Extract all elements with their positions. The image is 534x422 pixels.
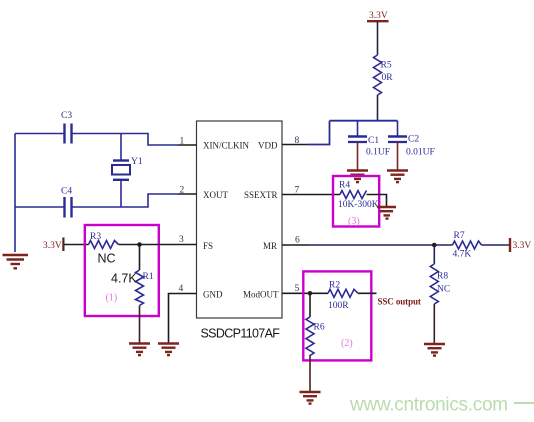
svg-text:C3: C3 (61, 111, 72, 121)
svg-text:6: 6 (295, 236, 300, 246)
ground C2 (387, 171, 408, 183)
wire : GND pin 4 (169, 294, 197, 344)
svg-text:FS: FS (203, 241, 213, 251)
svg-text:SSC output: SSC output (378, 297, 421, 307)
svg-text:3.3V: 3.3V (43, 241, 62, 251)
svg-text:R4: R4 (339, 181, 350, 191)
wire : SSEXTR pin 7 to R4 (282, 194, 340, 196)
svg-text:R7: R7 (454, 231, 465, 241)
ground R8 (424, 344, 445, 356)
svg-text:MR: MR (263, 241, 277, 251)
svg-text:XIN/CLKIN: XIN/CLKIN (203, 141, 249, 151)
node junction ModOUT/R6 (308, 291, 313, 296)
resistor R6 (306, 293, 325, 391)
svg-text:Y1: Y1 (131, 157, 143, 167)
svg-text:0.1UF: 0.1UF (366, 148, 390, 158)
wire : left vertical of crystal loop (14, 134, 16, 253)
svg-text:5: 5 (295, 284, 300, 294)
svg-text:0R: 0R (382, 73, 394, 83)
svg-text:4.7K: 4.7K (111, 272, 137, 286)
svg-text:C4: C4 (61, 187, 72, 197)
resistor R2 (328, 281, 358, 312)
wire : XIN net top horizontal + step to pin 1 (15, 134, 197, 146)
svg-text:3.3V: 3.3V (513, 241, 532, 251)
ground left (3, 255, 29, 268)
svg-text:(3): (3) (348, 216, 360, 227)
power 3.3V right (510, 238, 531, 252)
svg-text:GND: GND (203, 290, 223, 300)
wire : MR pin 6 net (282, 244, 453, 246)
capacitor C3 (61, 111, 72, 144)
resistor R4 (338, 181, 379, 211)
wire : R2 to SSC output (358, 292, 377, 294)
ground R1 (129, 344, 150, 356)
svg-text:3.3V: 3.3V (369, 11, 388, 21)
node junction MR/R8 (432, 243, 437, 248)
svg-text:VDD: VDD (258, 141, 278, 151)
ground R6 (300, 392, 321, 404)
capacitor C1 (348, 121, 390, 170)
resistor R3 (89, 232, 119, 266)
svg-text:ModOUT: ModOUT (243, 290, 279, 300)
svg-text:100R: 100R (328, 301, 349, 311)
ground C1 (347, 171, 368, 183)
svg-text:R3: R3 (90, 232, 101, 242)
wire : R7 to 3.3V (482, 244, 510, 246)
node junction FS/R1 (137, 242, 142, 247)
svg-text:0.01UF: 0.01UF (406, 148, 435, 158)
svg-text:4.7K: 4.7K (453, 250, 472, 260)
power 3.3V left (FS) (43, 238, 63, 252)
svg-text:C1: C1 (368, 136, 379, 146)
wire : FS net (64, 244, 89, 246)
wire : XOUT net bottom horizontal + step to pin 2 (15, 194, 197, 207)
svg-text:R1: R1 (143, 272, 154, 282)
capacitor C4 (61, 187, 72, 218)
box (1) (85, 225, 159, 316)
wire : R3 to pin 3 (119, 244, 197, 246)
svg-text:C2: C2 (408, 135, 419, 145)
wire : VDD bus (282, 121, 398, 145)
crystal Y1 (112, 134, 143, 208)
resistor R5 (374, 55, 394, 121)
power 3.3V top (367, 11, 389, 55)
ground pin4 (158, 344, 179, 356)
svg-text:1: 1 (180, 137, 185, 147)
svg-text:4: 4 (179, 284, 184, 294)
capacitor C2 (388, 121, 435, 170)
svg-text:R2: R2 (329, 281, 340, 291)
box (3) (333, 176, 379, 227)
svg-text:XOUT: XOUT (203, 190, 228, 200)
svg-text:SSDCP1107AF: SSDCP1107AF (201, 327, 281, 341)
svg-text:10K-300K: 10K-300K (338, 200, 379, 210)
resistor R8 (430, 245, 450, 344)
op-amp U1 : IC body SSDCP1107AF (197, 121, 283, 318)
box (2) (303, 271, 371, 360)
svg-text:R6: R6 (314, 323, 325, 333)
svg-text:NC: NC (437, 285, 450, 295)
svg-text:7: 7 (295, 186, 300, 196)
wire : R4 to ground (367, 195, 387, 207)
svg-text:3: 3 (179, 235, 184, 245)
svg-text:(2): (2) (341, 338, 353, 349)
svg-text:NC: NC (98, 252, 116, 266)
svg-text:R5: R5 (381, 61, 392, 71)
svg-text:(1): (1) (106, 293, 118, 304)
resistor R7 (453, 231, 482, 260)
svg-text:www.cntronics.com: www.cntronics.com (349, 395, 508, 416)
svg-text:R8: R8 (437, 272, 448, 282)
svg-text:2: 2 (180, 186, 185, 196)
svg-text:SSEXTR: SSEXTR (244, 190, 278, 200)
wire : ModOUT pin 5 to R2 (282, 292, 328, 294)
ground R4 (377, 207, 396, 219)
watermark www.cntronics.com (349, 395, 534, 416)
resistor R1 (111, 245, 154, 344)
svg-text:8: 8 (295, 136, 300, 146)
